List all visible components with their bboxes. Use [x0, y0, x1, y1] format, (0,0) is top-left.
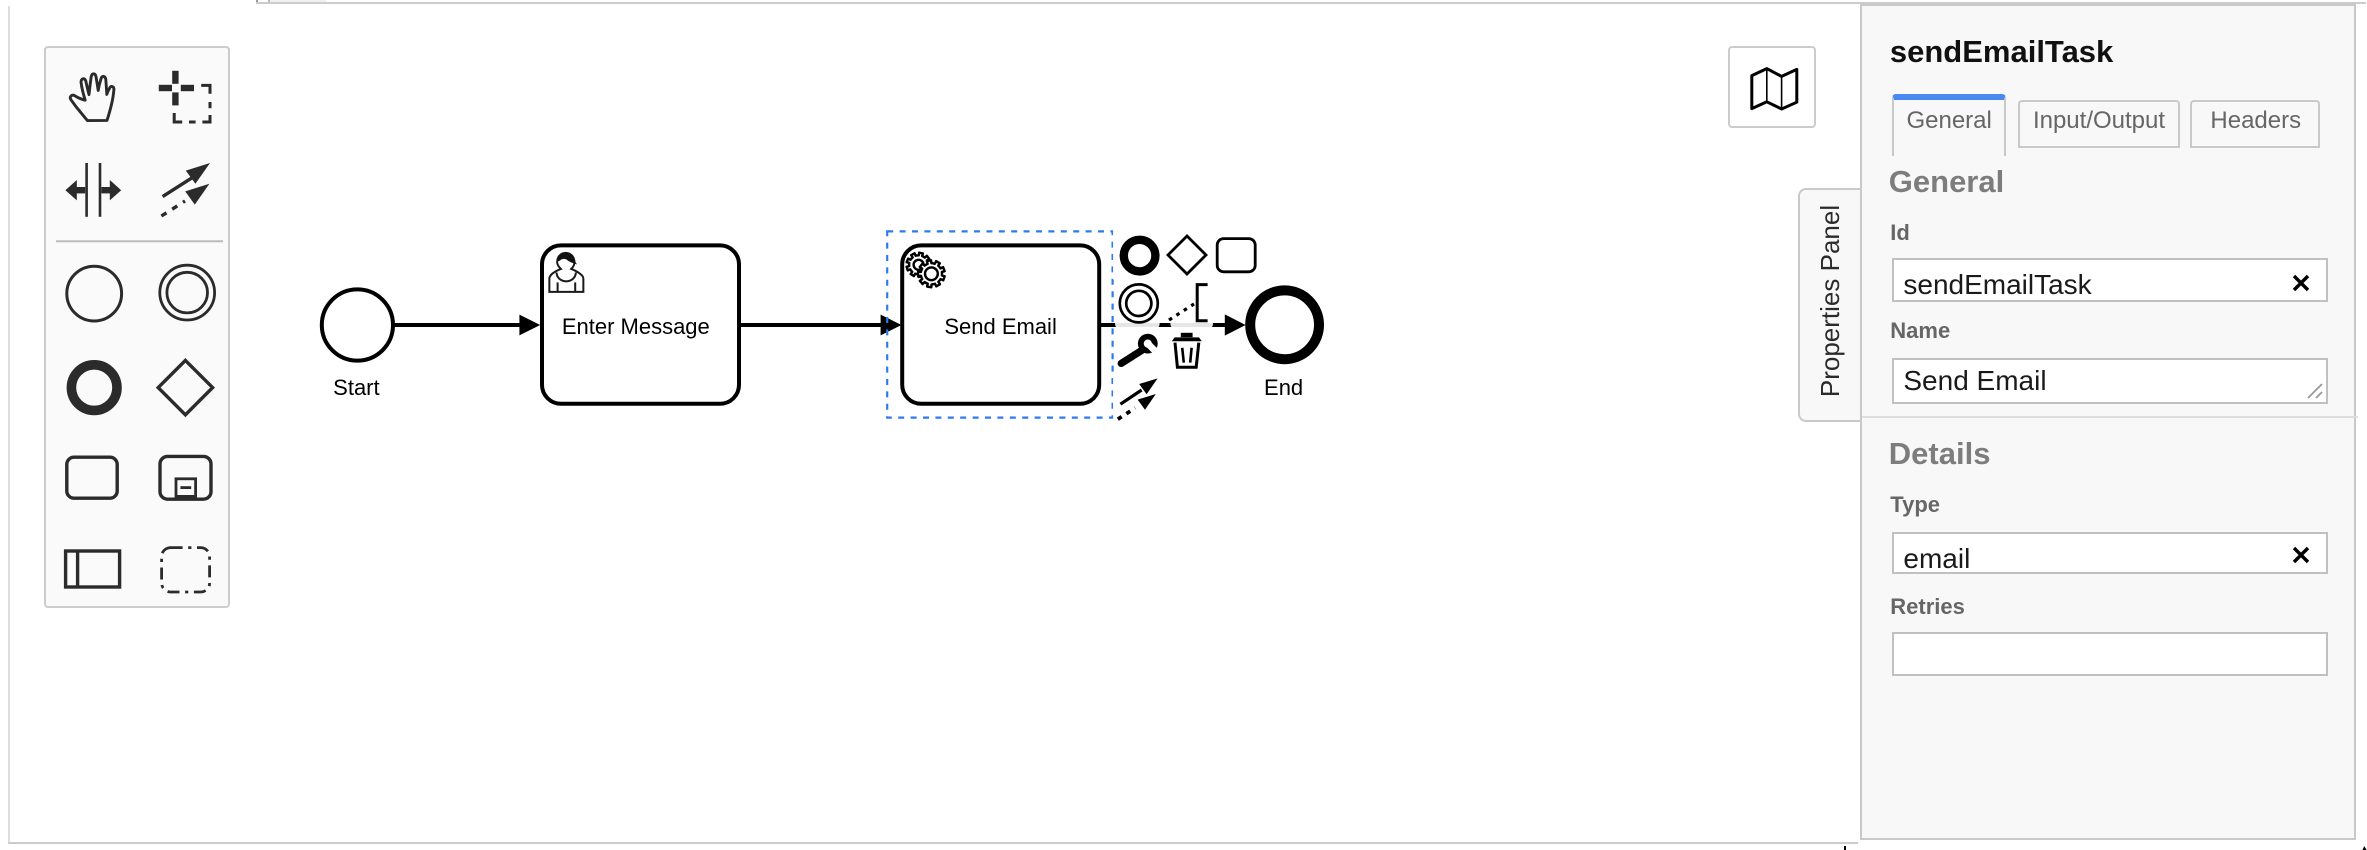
group separator — [1861, 417, 2359, 419]
end event — [1250, 290, 1319, 359]
minimap toggle — [1728, 46, 1816, 129]
create group — [161, 548, 209, 592]
selection outline (dashed blue) — [887, 231, 1112, 417]
pad: text annotation — [1197, 285, 1207, 321]
input Type with clear button — [1891, 532, 2329, 575]
group: Details — [1889, 441, 1991, 472]
global connect tool — [161, 163, 210, 216]
user task Enter Message — [542, 245, 739, 403]
context pad — [1113, 230, 1261, 426]
canvas frame borders — [8, 6, 10, 843]
map icon — [1752, 68, 1797, 108]
entry backgrounds — [1113, 230, 1261, 426]
properties panel — [1859, 4, 2357, 841]
create intermediate event — [159, 265, 214, 320]
input Retries (empty) — [1891, 632, 2328, 676]
service task Send Email — [902, 245, 1099, 403]
pad: wrench (change type) — [1121, 334, 1160, 364]
pad: append gateway — [1168, 236, 1206, 274]
sequence flow 2 — [739, 315, 901, 336]
svg-text:Start: Start — [333, 375, 379, 400]
svg-text:End: End — [1264, 375, 1303, 400]
create end event — [71, 365, 117, 411]
properties panel vertical tab — [1799, 188, 1860, 421]
palette — [44, 46, 231, 607]
separator — [56, 240, 223, 242]
sequence flow 3 — [1100, 314, 1246, 335]
create pool/participant — [65, 551, 119, 587]
svg-text:Send Email: Send Email — [944, 314, 1057, 339]
sequence flow 1 — [393, 315, 540, 336]
create gateway — [158, 360, 212, 414]
create start event — [66, 266, 121, 321]
create task — [66, 457, 116, 498]
input Id with clear button — [1891, 257, 2328, 302]
small dot near bottom — [1844, 847, 1847, 850]
tab General (active) — [1892, 94, 2007, 156]
user task icon — [549, 253, 583, 292]
heading — [1890, 38, 2113, 69]
label Retries — [1890, 598, 1965, 620]
pad: trash (delete) — [1172, 333, 1202, 367]
pad: append intermediate event — [1120, 284, 1158, 322]
label Type — [1890, 497, 1940, 519]
group: General — [1889, 167, 2004, 198]
pad: append end event — [1124, 240, 1156, 272]
hand tool — [70, 74, 114, 121]
label Id — [1890, 223, 1910, 245]
tab Headers — [2191, 100, 2321, 148]
pad: append task — [1217, 239, 1255, 272]
service task gear icon — [907, 253, 945, 288]
textarea Name with resize handle — [1891, 358, 2328, 403]
space tool — [65, 163, 121, 217]
top tab strip fragment — [255, 0, 2367, 6]
tab Input/Output — [2019, 100, 2180, 148]
svg-text:Enter Message: Enter Message — [562, 314, 710, 339]
lasso tool — [158, 71, 193, 106]
start event — [322, 289, 393, 360]
pad: connect — [1118, 378, 1158, 419]
label Name — [1890, 323, 1950, 345]
create subprocess — [160, 456, 211, 499]
mouse cursor fragment bottom-right — [2363, 845, 2367, 850]
